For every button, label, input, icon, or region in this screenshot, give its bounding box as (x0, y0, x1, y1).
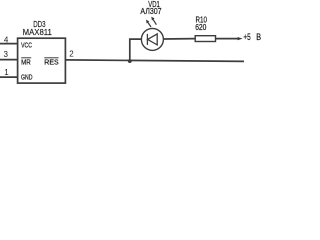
svg-text:GND: GND (21, 72, 33, 81)
svg-text:RES: RES (44, 58, 58, 67)
svg-text:3: 3 (4, 50, 9, 59)
svg-text:1: 1 (4, 68, 9, 77)
svg-text:MR: MR (21, 58, 31, 67)
svg-text:4: 4 (4, 35, 9, 44)
svg-text:MAX811: MAX811 (23, 27, 53, 37)
svg-text:АЛ307: АЛ307 (140, 6, 161, 16)
svg-text:VCC: VCC (21, 41, 32, 50)
svg-text:В: В (256, 32, 261, 42)
svg-text:2: 2 (69, 49, 74, 58)
svg-text:+5: +5 (243, 32, 250, 42)
svg-text:620: 620 (195, 22, 206, 32)
